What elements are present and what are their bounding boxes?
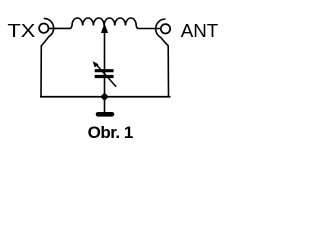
capacitor C1 top plate xyxy=(95,69,114,72)
inductor L1 (6 turns) xyxy=(70,18,162,29)
junction node xyxy=(100,93,108,102)
wire: inductor arrow shaft down through C1 to junction xyxy=(104,31,106,97)
svg-text:TX: TX xyxy=(7,20,36,41)
ground stub wire xyxy=(104,97,106,112)
capacitor C1 adjust arrowhead xyxy=(93,61,99,67)
connector J2 shield arc + right vertical wire xyxy=(156,19,169,97)
connector J1 shield arc + left vertical wire xyxy=(41,18,54,96)
connector J1 (TX coax socket) xyxy=(39,24,48,33)
inductor adjust arrowhead xyxy=(101,23,108,33)
svg-text:ANT: ANT xyxy=(181,20,219,41)
ground symbol bar xyxy=(98,112,112,117)
wire TX to inductor xyxy=(48,27,69,29)
bottom wire rail xyxy=(40,96,171,98)
connector J2 (ANT coax socket) xyxy=(161,24,170,33)
capacitor C1 adjust arrow line xyxy=(96,65,116,87)
svg-text:Obr. 1: Obr. 1 xyxy=(88,123,133,142)
capacitor C1 bottom plate xyxy=(95,75,114,78)
